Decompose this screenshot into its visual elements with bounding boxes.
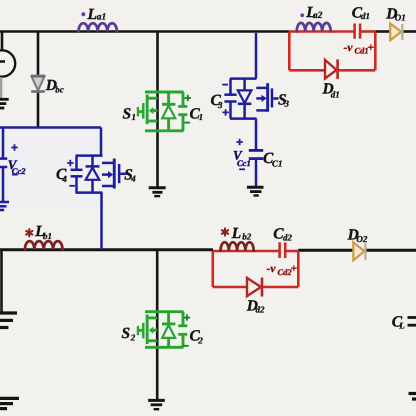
svg-text:a2: a2 <box>313 11 323 21</box>
svg-text:bc: bc <box>55 84 64 94</box>
svg-text:-v: -v <box>344 42 354 54</box>
svg-text:3: 3 <box>217 100 223 110</box>
svg-text:1: 1 <box>132 112 137 122</box>
svg-text:-v: -v <box>267 263 277 275</box>
svg-text:S: S <box>122 325 131 342</box>
svg-text:+: + <box>291 263 298 275</box>
svg-text:d2: d2 <box>256 305 266 315</box>
svg-text:4: 4 <box>61 174 67 184</box>
svg-text:b2: b2 <box>242 232 252 242</box>
svg-text:L: L <box>231 225 241 242</box>
svg-text:O2: O2 <box>356 234 367 244</box>
svg-text:a1: a1 <box>97 12 107 22</box>
svg-text:4: 4 <box>130 173 136 183</box>
svg-text:L: L <box>87 6 97 23</box>
svg-text:S: S <box>123 106 132 123</box>
svg-text:C1: C1 <box>272 159 283 169</box>
svg-text:O1: O1 <box>395 12 406 22</box>
svg-text:Cc2: Cc2 <box>12 166 26 176</box>
svg-text:d1: d1 <box>361 11 370 21</box>
svg-text:+: + <box>368 42 375 54</box>
svg-text:d2: d2 <box>283 232 293 242</box>
svg-text:3: 3 <box>284 99 290 109</box>
svg-text:b1: b1 <box>43 231 52 241</box>
svg-text:2: 2 <box>130 332 136 342</box>
svg-text:d1: d1 <box>331 90 340 100</box>
svg-text:Cc1: Cc1 <box>237 158 251 168</box>
svg-text:1: 1 <box>199 112 204 122</box>
svg-text:2: 2 <box>197 335 203 345</box>
svg-text:L: L <box>398 320 405 330</box>
